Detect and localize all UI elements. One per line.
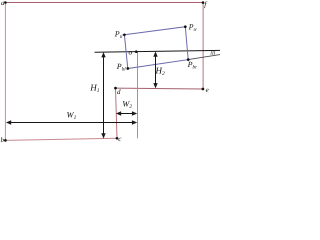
svg-text:e: e bbox=[206, 86, 209, 94]
svg-text:W2: W2 bbox=[122, 99, 132, 111]
svg-text:a: a bbox=[1, 0, 5, 7]
svg-text:d: d bbox=[117, 88, 121, 96]
svg-text:Ptl: Ptl bbox=[114, 30, 123, 41]
svg-text:b: b bbox=[1, 136, 5, 144]
svg-text:c: c bbox=[118, 135, 122, 143]
svg-text:H2: H2 bbox=[155, 66, 166, 78]
svg-text:Ptr: Ptr bbox=[188, 22, 197, 33]
svg-text:o: o bbox=[129, 47, 133, 56]
svg-text:W1: W1 bbox=[67, 110, 77, 122]
svg-text:Pbr: Pbr bbox=[187, 60, 197, 71]
svg-text:H1: H1 bbox=[89, 82, 100, 94]
svg-text:III: III bbox=[209, 51, 215, 57]
svg-text:f: f bbox=[204, 0, 207, 8]
svg-text:Pbl: Pbl bbox=[116, 62, 126, 73]
